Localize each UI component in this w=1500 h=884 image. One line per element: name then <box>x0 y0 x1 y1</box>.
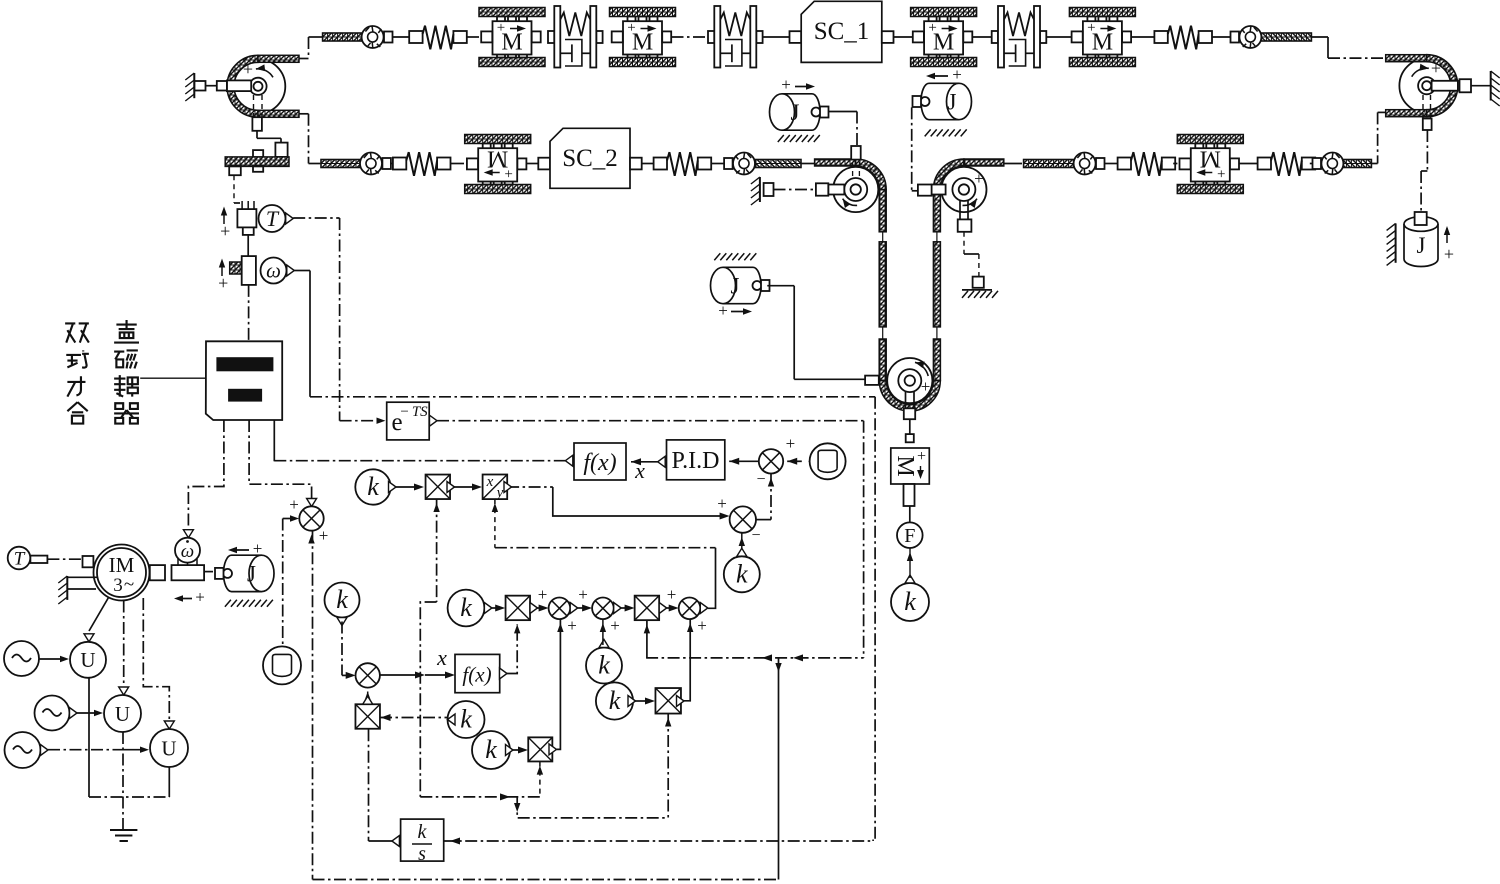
mass block M2 <box>610 8 676 67</box>
P1 lower yoke <box>253 95 255 117</box>
svg-text:+: + <box>952 65 962 84</box>
svg-text:k: k <box>336 585 348 614</box>
svg-text:U: U <box>80 648 95 672</box>
inertia J4 hanging <box>1404 224 1438 267</box>
svg-text:−: − <box>756 471 765 488</box>
wire M5-SC2 <box>526 163 538 165</box>
wire XE out to divider denominator <box>708 548 716 609</box>
gain k14 <box>724 556 760 592</box>
svg-text:k: k <box>460 705 472 734</box>
block SC_2 <box>538 158 550 170</box>
wire ks input from omega feedback <box>444 840 873 842</box>
svg-text:+: + <box>697 616 707 635</box>
svg-text:M: M <box>892 455 918 476</box>
rope eye R2 <box>1231 26 1312 48</box>
wire U bottoms to ground bus <box>88 678 90 797</box>
wire k6 to BM <box>380 717 448 719</box>
gain row k2 <box>448 590 485 627</box>
T1 motion arrow <box>223 210 225 224</box>
torque sensor T1 block <box>241 201 243 209</box>
integrator block ks <box>392 836 400 847</box>
svg-text:J: J <box>1417 233 1426 258</box>
J1 ground hatch <box>778 135 820 142</box>
wire J1 to P3 <box>829 111 858 113</box>
P3 rotation arrow <box>843 199 858 206</box>
svg-text:+: + <box>497 20 505 36</box>
mixer circle X8 <box>299 506 323 530</box>
svg-text:y: y <box>495 485 504 501</box>
ac source S2 <box>35 696 70 731</box>
wire branch to B4 riser <box>517 797 668 818</box>
wire k4 to XC <box>602 619 604 645</box>
wire row2 right of P4 <box>1004 163 1022 165</box>
function block fx1 <box>574 443 626 480</box>
wire source2 to mixer8 <box>282 519 284 647</box>
wire BN bottom <box>539 762 541 797</box>
svg-text:3: 3 <box>113 575 123 596</box>
svg-text:+: + <box>781 75 791 94</box>
wire k1 to mult1 <box>396 486 419 488</box>
rope eye R3 <box>321 153 391 175</box>
spring K2 <box>1154 26 1212 50</box>
wire bar to J5 <box>204 571 213 573</box>
svg-text:+: + <box>717 494 727 513</box>
svg-text:+: + <box>627 20 635 36</box>
wire BM bottom from ks <box>368 729 370 841</box>
wire source1 to mixer1 <box>787 458 797 465</box>
wire B1 to xy <box>455 486 478 488</box>
inertia J2 <box>913 83 972 119</box>
source circle SRC2 <box>263 646 301 684</box>
svg-text:U: U <box>161 737 176 761</box>
svg-text:x: x <box>486 474 494 490</box>
slider block small <box>253 150 263 157</box>
wire U2 to earth <box>122 732 124 829</box>
svg-text:k: k <box>418 821 428 843</box>
wire lower distribution line <box>420 796 540 798</box>
mixer circle XL <box>356 663 380 687</box>
multiplier box BM <box>355 704 380 729</box>
wire row2 to P2 <box>1310 163 1313 165</box>
wire SC2-K4 <box>642 163 654 165</box>
motor wall mount <box>66 576 68 600</box>
gain k16 to F <box>891 583 929 621</box>
belt band P4 right <box>964 159 1004 166</box>
wire coupler to omegadot <box>188 420 224 531</box>
multiplier box B4 <box>655 688 681 714</box>
rail left foot <box>229 166 241 175</box>
svg-text:+: + <box>786 434 796 453</box>
gain k6 <box>448 701 485 738</box>
mass block M3 <box>911 8 977 67</box>
M7 lower stub <box>904 484 915 506</box>
omega motion arrow <box>221 262 223 276</box>
belt right strand segments <box>933 190 940 232</box>
P4 axle stub <box>932 185 946 195</box>
P1 shaft and support wall <box>227 80 251 91</box>
wire B1 bottom riser <box>436 499 438 602</box>
J2 + arrow label <box>930 75 948 77</box>
speed sensor omega block <box>242 256 256 285</box>
wire k7 to BN <box>513 749 523 751</box>
svg-text:k: k <box>460 593 472 622</box>
inertia J5 <box>215 555 274 591</box>
sensor circle omegadot <box>175 538 200 563</box>
ac source S3 <box>5 732 41 768</box>
svg-text:k: k <box>598 651 610 680</box>
svg-text:SC_1: SC_1 <box>814 18 870 45</box>
wire mixer1 to PID <box>729 458 739 465</box>
svg-text:+: + <box>718 301 728 320</box>
wire omega feedback long <box>294 270 310 272</box>
controller block PID <box>667 440 725 480</box>
J5 ground hatch <box>225 600 273 607</box>
wire dash link M2-D2 <box>672 36 709 38</box>
wire P1 yoke to slider <box>256 131 258 139</box>
wire B4 bottom riser <box>667 714 669 818</box>
wire S2-U2 <box>70 708 78 719</box>
svg-text:+: + <box>195 588 205 607</box>
wire M3-D3 <box>972 36 992 38</box>
J4 + arrow label <box>1446 228 1448 243</box>
wire B4 out to XE riser <box>684 619 690 701</box>
P4 lower yoke to anchor <box>959 200 961 219</box>
multiplier box B1 <box>426 475 451 500</box>
force sensor F <box>909 506 911 522</box>
wire M4-K2 <box>1131 36 1155 38</box>
svg-text:+: + <box>504 165 512 181</box>
svg-text:+: + <box>1087 20 1095 36</box>
wire P2 yoke to J4 <box>1426 130 1428 171</box>
multiplier box BA <box>506 596 531 621</box>
earth ground symbol <box>110 829 137 831</box>
J3 ceiling hatch <box>714 253 756 260</box>
mass block M4 <box>1069 8 1135 67</box>
P5 axle stub from J3 <box>865 376 879 385</box>
svg-text:−: − <box>751 527 760 544</box>
wire top chain right segment <box>1212 36 1231 38</box>
gain k4 <box>586 648 622 684</box>
svg-text:+: + <box>253 539 263 558</box>
wire D3-M4 <box>1046 36 1072 38</box>
J5 + arrow label above <box>231 549 249 551</box>
belt band into P3 <box>815 159 856 166</box>
function block fx2 <box>455 654 500 692</box>
svg-text:+: + <box>917 448 926 465</box>
wire SC1-M3 <box>894 36 913 38</box>
svg-text:+: + <box>218 273 228 293</box>
pulley P3 <box>833 159 886 212</box>
wire S1-U1 <box>39 658 65 660</box>
svg-text:J: J <box>247 561 256 586</box>
svg-text:J: J <box>948 90 957 115</box>
inertia J3 <box>711 267 770 303</box>
wire rope to belt <box>711 163 725 165</box>
wire top chain left segment <box>299 58 309 60</box>
wire T1 to eTS <box>293 217 339 219</box>
P5 lower yoke <box>905 392 907 408</box>
svg-text:+: + <box>974 169 984 188</box>
magnetic coupler block <box>206 341 282 420</box>
gain k3 standalone <box>325 583 360 618</box>
spring K4 <box>654 152 712 176</box>
svg-text:ω: ω <box>181 541 194 562</box>
motor wire to U2 <box>123 601 125 689</box>
coupler label callout <box>140 377 206 379</box>
wire row2 from P1 <box>299 113 309 115</box>
svg-text:x: x <box>436 645 447 670</box>
wire XL to fx2 <box>380 674 420 676</box>
rope eye R6 <box>1313 153 1372 175</box>
spring K3 <box>390 163 393 165</box>
slider lower lug <box>253 166 263 171</box>
voltmeter U1 <box>70 642 106 678</box>
sensor circle T1 <box>259 205 286 232</box>
right return pulley P2 <box>1386 55 1458 117</box>
wire BN out to XB riser <box>557 619 561 749</box>
torque sensor M7 box <box>891 448 930 484</box>
rope eye R5 <box>1024 153 1105 175</box>
rope eye R4 <box>724 153 801 175</box>
svg-text:+: + <box>921 377 931 396</box>
svg-text:s: s <box>418 843 426 865</box>
svg-text:k: k <box>904 587 916 616</box>
P2 lower yoke <box>1422 95 1424 119</box>
slider block upper <box>275 143 287 157</box>
svg-text:+: + <box>220 221 230 241</box>
delay block eTS <box>377 418 386 424</box>
function fx1 output line <box>274 460 565 462</box>
induction motor IM <box>94 545 150 601</box>
spring K1 <box>392 36 409 38</box>
source circle SRC1 <box>810 443 846 479</box>
voltmeter U3 <box>150 729 188 767</box>
wire J2 to P4 axle <box>911 107 913 190</box>
wire k3 to mixerL <box>341 622 343 676</box>
mass block M1 <box>479 8 545 67</box>
svg-text:T: T <box>266 206 280 231</box>
multiplier box BD <box>635 596 660 621</box>
block SC_1 <box>790 31 802 43</box>
svg-text:F: F <box>904 525 915 547</box>
wire BM to XL <box>367 692 369 705</box>
wire T2 to motor <box>47 558 82 560</box>
wire omega block to coupler <box>248 285 250 341</box>
svg-text:k: k <box>736 559 748 588</box>
svg-text:+: + <box>1217 165 1225 181</box>
spring-damper D3 <box>992 6 1047 68</box>
coupler label text 双盘式磁力耦合器 <box>65 323 89 342</box>
svg-text:f(x): f(x) <box>462 663 491 687</box>
P3 top stem from J1 <box>852 162 854 180</box>
svg-text:P.I.D: P.I.D <box>671 448 719 474</box>
wire J3 to P5 <box>767 285 794 287</box>
P2 shaft and support wall <box>1432 81 1458 91</box>
wire fx2 to BA riser <box>507 624 517 673</box>
wire coupler to mixer <box>249 420 312 499</box>
bottom feedback rail <box>313 879 780 881</box>
svg-text:+: + <box>1444 244 1454 264</box>
svg-text:k: k <box>609 686 621 715</box>
svg-text:f(x): f(x) <box>583 450 616 476</box>
J4 wall hatch <box>1395 223 1397 262</box>
pulley P4 <box>933 159 986 212</box>
spring-damper D1 <box>548 6 603 68</box>
J2 ground hatch <box>925 129 967 136</box>
ac source S1 <box>4 641 39 676</box>
wire PID to fx1 <box>631 458 641 465</box>
svg-text:+: + <box>567 616 577 635</box>
wire k5 to B4 <box>636 700 651 702</box>
svg-text:+: + <box>667 585 677 604</box>
J5 + arrow label below <box>177 598 192 600</box>
mixer circle X1 <box>759 449 783 473</box>
divider box xy <box>483 475 508 500</box>
svg-text:k: k <box>367 472 379 501</box>
svg-text:+: + <box>578 585 588 604</box>
wire M6-K6 <box>1239 163 1258 165</box>
wire feedback branch to bottom rail <box>778 658 780 880</box>
svg-text:+: + <box>289 495 299 514</box>
slider hatched rail <box>225 157 289 167</box>
P3 axle to wall <box>828 185 844 195</box>
P5 rotation + mark <box>915 362 928 376</box>
accel sensor omegadot bar <box>172 565 205 580</box>
wire mixer2 up to mixer1 <box>770 474 772 520</box>
svg-text:ω: ω <box>266 259 281 283</box>
gain k5 <box>596 682 633 719</box>
svg-text:k: k <box>485 735 497 764</box>
wire xy to mixer2 <box>507 486 553 488</box>
gain k1 <box>355 469 390 504</box>
motor wire to U1 <box>89 598 109 632</box>
spring K5 <box>1104 163 1118 165</box>
pulley P5 <box>879 358 940 411</box>
svg-text:U: U <box>115 702 130 726</box>
svg-text:J: J <box>731 274 740 299</box>
wire feedback to D-multiplier <box>646 657 864 659</box>
voltmeter U2 <box>104 695 141 732</box>
svg-text:+: + <box>610 616 620 635</box>
svg-text:− TS: − TS <box>400 404 428 420</box>
motor wire to U3 <box>143 598 169 722</box>
wire coupler to fx line <box>273 420 275 461</box>
mixer circle XB <box>549 598 571 620</box>
motor right stub <box>150 565 165 580</box>
svg-text:J: J <box>791 100 800 125</box>
mixer circle X2 <box>730 506 756 532</box>
svg-text:+: + <box>243 59 253 79</box>
mass block M5 <box>450 163 464 165</box>
spring-damper D2 <box>708 6 763 68</box>
sensor circle T2 <box>8 547 31 570</box>
svg-text:+: + <box>538 585 548 604</box>
T1 lower stub <box>243 227 254 235</box>
multiplier box BN <box>528 737 552 761</box>
rope eye R1 <box>323 26 393 48</box>
sensor circle omega <box>261 258 287 284</box>
mixer circle XC <box>592 598 614 620</box>
wire foot to torque sensor <box>233 175 235 203</box>
svg-text:~: ~ <box>124 574 134 595</box>
belt left strand segments <box>879 190 886 232</box>
svg-text:+: + <box>1431 58 1441 78</box>
left drive pulley P1 <box>227 55 299 117</box>
gain k7 <box>472 731 510 769</box>
mass block M6 <box>1173 163 1177 165</box>
svg-text:T: T <box>14 548 26 569</box>
wire D2-SC1 <box>763 36 790 38</box>
mixer circle XE <box>679 598 701 620</box>
wire S3-U3 <box>41 745 49 756</box>
svg-text:SC_2: SC_2 <box>562 145 618 172</box>
wire k14 to mixer2 top <box>741 533 743 551</box>
wire eTS output feedback <box>437 420 864 422</box>
svg-text:+: + <box>928 20 936 36</box>
wire ks output to BM riser <box>369 840 394 842</box>
spring K6 <box>1258 152 1316 176</box>
svg-text:+: + <box>319 526 329 545</box>
inertia J1 <box>770 94 829 130</box>
wire rail to mixer8 <box>312 531 314 880</box>
